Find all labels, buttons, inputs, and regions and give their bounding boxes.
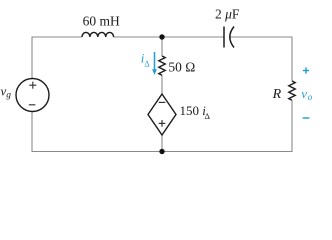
wire right lower: [291, 100, 293, 152]
current arrow i-delta (cyan): [154, 52, 156, 71]
svg-text:2 μF: 2 μF: [215, 7, 240, 22]
svg-text:60 mH: 60 mH: [83, 14, 120, 29]
dependent source diamond 150 i-delta: [148, 94, 176, 135]
wire left upper: [31, 37, 33, 79]
wire top-middle segment: [114, 36, 225, 38]
svg-text:g: g: [6, 91, 11, 101]
plus sign in source: [29, 84, 36, 86]
wire middle lower: [161, 135, 163, 152]
plus sign vo (cyan): [303, 70, 309, 72]
wire right upper: [291, 37, 293, 82]
resistor 50 ohm zigzag: [159, 56, 165, 75]
node dot top: [159, 34, 164, 39]
minus sign in source: [29, 104, 36, 106]
voltage source vg circle: [16, 79, 49, 112]
wire middle between resistor and diamond: [161, 75, 163, 94]
capacitor C 2uF curved plate: [230, 27, 234, 48]
svg-text:Δ: Δ: [144, 59, 150, 69]
svg-text:150 i: 150 i: [180, 103, 207, 118]
svg-text:R: R: [272, 87, 282, 102]
svg-text:50 Ω: 50 Ω: [168, 60, 195, 75]
wire top-right segment: [230, 36, 292, 38]
minus sign in diamond: [159, 101, 166, 103]
resistor R zigzag: [289, 81, 295, 100]
svg-text:o: o: [308, 92, 313, 102]
wire middle upper: [161, 37, 163, 56]
wire top-left segment: [32, 36, 82, 38]
wire bottom: [32, 151, 293, 153]
svg-text:Δ: Δ: [205, 111, 211, 121]
capacitor C 2uF left plate: [223, 27, 225, 48]
wire left lower: [31, 112, 33, 153]
svg-text:v: v: [301, 86, 307, 101]
inductor 60 mH: [82, 32, 114, 37]
node dot bottom: [159, 149, 164, 154]
plus sign in diamond: [159, 122, 166, 124]
minus sign vo (cyan): [303, 117, 310, 119]
